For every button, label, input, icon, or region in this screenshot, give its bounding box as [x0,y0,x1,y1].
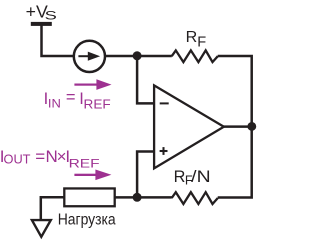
resistor RF/N [172,192,218,204]
svg-text:=: = [35,147,45,166]
wire load to ground [41,197,64,219]
wire non-inverting input to node B [137,152,153,198]
svg-text:/N: /N [191,168,210,186]
svg-text:REF: REF [69,156,101,170]
svg-text:Нагрузка: Нагрузка [58,211,116,228]
supply bar +VS terminal [31,22,52,26]
op-amp U1 [154,85,224,168]
node A junction dot [133,51,142,60]
current arrow IOUT [74,170,111,181]
current source I1 [74,41,105,72]
ground [32,220,51,237]
svg-text:N×I: N×I [46,147,70,166]
resistor RF [172,50,218,62]
plus sign (non-inverting input) [160,147,168,155]
svg-text:F: F [197,34,206,50]
output node junction dot [247,122,256,131]
wire RF to right rail [218,56,252,198]
node B junction dot [133,193,142,202]
wire from current source to node A [104,55,172,58]
current arrow IIN [74,79,111,90]
wire op-amp output to right rail [224,125,252,128]
wire node A to inverting input [137,56,153,104]
svg-text:=: = [66,89,76,107]
svg-text:R: R [186,28,198,46]
minus sign (inverting input) [160,102,169,104]
svg-text:R: R [174,168,186,186]
svg-text:IN: IN [48,97,61,111]
svg-text:S: S [45,9,57,23]
svg-text:OUT: OUT [4,153,31,167]
svg-text:REF: REF [84,97,112,111]
load box (Нагрузка) [64,188,114,206]
wire load to RF/N (bottom net) [115,196,172,199]
wire from +VS bar to current source [42,25,75,56]
